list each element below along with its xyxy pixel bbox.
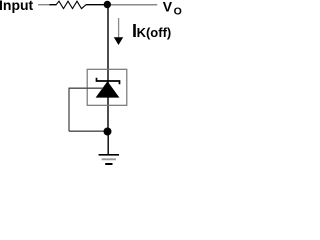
wire input lead black segment xyxy=(50,4,57,6)
node top junction xyxy=(104,1,111,8)
current arrow IK(off) shaft xyxy=(118,18,120,39)
svg-text:K(off): K(off) xyxy=(137,25,172,40)
wire node to VO xyxy=(111,4,157,6)
wire to ground xyxy=(107,132,109,155)
wire reference into box xyxy=(69,87,103,89)
node bottom junction xyxy=(104,128,112,136)
current arrow IK(off) head xyxy=(114,37,123,45)
svg-text:O: O xyxy=(174,6,182,18)
wire input lead gray segment xyxy=(38,4,50,6)
resistor R1 xyxy=(56,1,86,8)
zener D1 anode triangle xyxy=(96,81,120,97)
svg-text:Input: Input xyxy=(0,0,34,13)
wire main vertical (node to bottom node) xyxy=(107,5,109,132)
wire feedback bottom horizontal xyxy=(69,130,105,132)
ground bar 1 xyxy=(99,154,119,156)
zener D1 cathode bar xyxy=(97,78,120,85)
wire resistor to node xyxy=(86,4,105,6)
svg-text:V: V xyxy=(163,0,173,15)
ground bar 3 xyxy=(105,163,112,165)
shunt regulator U1 box xyxy=(87,69,127,105)
wire feedback left vertical xyxy=(68,88,70,132)
ground bar 2 xyxy=(102,158,116,160)
